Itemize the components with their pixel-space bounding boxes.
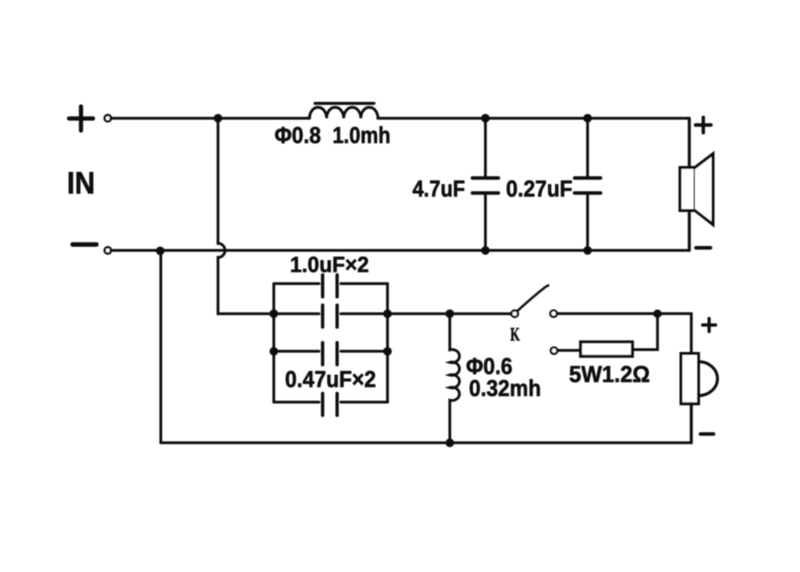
svg-text:4.7uF: 4.7uF (413, 176, 466, 202)
svg-text:0.27uF: 0.27uF (506, 176, 573, 202)
wire IN+ top rail left segment (111, 117, 310, 120)
wire switch to tweeter top (557, 314, 691, 354)
node L2 top junction (446, 309, 455, 318)
capacitor C5 rail3 (274, 350, 388, 353)
woofer SP1 (680, 118, 713, 250)
node bank right mid junction (383, 309, 392, 318)
switch K lever contact (511, 310, 518, 317)
input plus terminal (105, 115, 111, 121)
inductor L1 (310, 107, 378, 118)
wire left branch vertical (159, 250, 162, 442)
capacitor C4 rail2 (274, 312, 388, 315)
switch K lever (518, 285, 549, 310)
tweeter SP2 (681, 354, 718, 443)
node bank right rail3 junction (383, 347, 392, 356)
node C1 top junction (481, 114, 490, 123)
svg-text:IN: IN (67, 166, 95, 201)
wire resistor branch (558, 314, 658, 351)
capacitor bank box left edge (272, 284, 275, 403)
capacitor C2 0.27uF (575, 118, 601, 250)
svg-text:Φ0.8: Φ0.8 (275, 122, 322, 148)
wire bottom rail (161, 441, 692, 444)
wire vertical feed with hop over IN- (218, 118, 274, 314)
node top-feed junction (214, 114, 223, 123)
node bank left mid junction (270, 309, 279, 318)
capacitor C1 4.7uF (472, 118, 498, 250)
node C2 bottom junction (583, 246, 592, 255)
capacitor C3 rail1 (274, 282, 388, 285)
tweeter minus symbol (701, 432, 714, 436)
wire top rail right segment (378, 117, 689, 120)
input plus symbol (69, 107, 93, 131)
capacitor C6 rail4 (274, 401, 388, 404)
capacitor bank box right edge (386, 284, 389, 403)
wire IN- bottom rail (111, 249, 689, 252)
wire rail2 to switch (388, 312, 512, 315)
node C1 bottom junction (481, 246, 490, 255)
resistor R1 (581, 342, 633, 356)
svg-text:1.0uF×2: 1.0uF×2 (290, 252, 369, 277)
woofer plus symbol (696, 117, 712, 132)
input minus symbol (73, 242, 97, 246)
svg-text:0.47uF×2: 0.47uF×2 (285, 366, 376, 392)
node bank left rail3 junction (270, 347, 279, 356)
input minus terminal (105, 247, 111, 253)
node C2 top junction (583, 114, 592, 123)
svg-text:1.0mh: 1.0mh (333, 122, 391, 148)
inductor L2 (450, 314, 460, 443)
inductor L1 core bar (315, 102, 374, 105)
svg-text:0.32mh: 0.32mh (469, 375, 541, 401)
woofer minus symbol (696, 246, 711, 250)
node left-branch junction (156, 247, 165, 256)
switch K throw contact direct (550, 310, 557, 317)
node resistor junction (653, 310, 661, 318)
svg-text:K: K (510, 325, 520, 346)
node L2 bottom junction (446, 439, 455, 448)
tweeter plus symbol (703, 319, 716, 332)
switch K throw contact resistor (551, 347, 558, 354)
svg-text:5W1.2Ω: 5W1.2Ω (569, 361, 650, 387)
